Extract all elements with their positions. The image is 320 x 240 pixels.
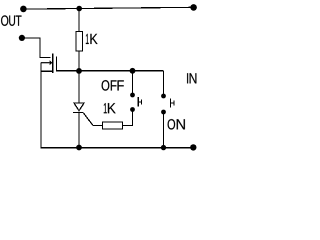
label 1K (R1) [86, 34, 98, 44]
wire source vertical to bottom rail [40, 63, 42, 148]
wire resistor R2 left lead [93, 125, 103, 127]
wire bottom rail [41, 147, 194, 149]
label ON [168, 119, 185, 129]
node IN- terminal [190, 144, 196, 150]
wire resistor R1 top lead [78, 8, 80, 31]
node OUT- terminal [19, 35, 25, 41]
label 1K (R2) [104, 103, 116, 113]
label IN [187, 73, 196, 83]
node junction OFF branch [130, 68, 136, 74]
node IN+ terminal [190, 4, 197, 11]
pushbutton ON lower contact [161, 110, 166, 115]
wire resistor R1 bottom lead [78, 51, 80, 71]
node bottom junction diode [76, 145, 82, 151]
pushbutton ON actuator [171, 99, 175, 108]
pushbutton OFF actuator [138, 97, 141, 107]
wire source bottom lead [41, 70, 53, 72]
wire OFF button bottom to resistor R2 [123, 110, 133, 126]
transistor Q1 channel bar [52, 54, 54, 74]
wire ON button bottom drop [163, 112, 165, 148]
diode D1 triangle [74, 103, 84, 111]
wire top rail [24, 7, 194, 9]
wire gate feed from OUT- terminal [24, 38, 51, 58]
node OUT+ terminal [20, 6, 27, 13]
wire OFF button top drop [132, 71, 134, 94]
wire diode D1 top lead [78, 71, 80, 103]
wire ON button top drop [163, 71, 165, 95]
node junction top rail / R1 [76, 6, 82, 12]
wire diode D1 bottom lead [78, 113, 80, 148]
wire diagonal diode to R2 [84, 113, 94, 126]
pushbutton ON upper contact [161, 94, 166, 99]
wire drain lead and gate node horizontal (to buttons) [56, 57, 163, 71]
resistor R2 1K horizontal body [103, 122, 123, 129]
node gate junction [76, 68, 82, 74]
pushbutton OFF lower contact [130, 107, 135, 112]
transistor Q1 body arrow [41, 60, 52, 65]
node bottom junction ON [161, 145, 166, 150]
resistor R1 1K vertical body [76, 32, 83, 52]
diode D1 cathode bar [73, 112, 84, 114]
label OUT [1, 15, 21, 25]
pushbutton OFF upper contact [130, 93, 135, 98]
label OFF [102, 80, 124, 90]
